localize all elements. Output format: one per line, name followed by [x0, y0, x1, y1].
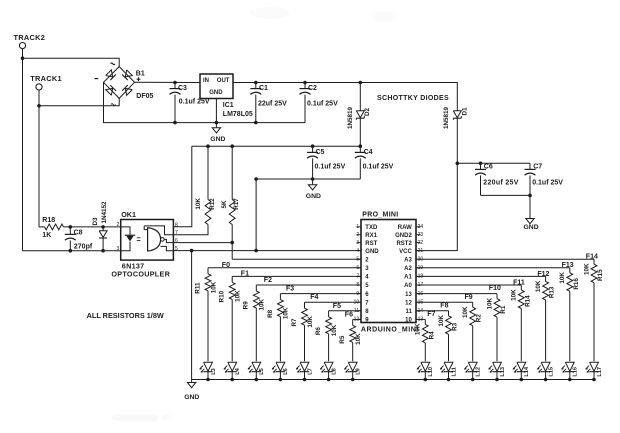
svg-text:LM78L05: LM78L05 — [223, 111, 253, 118]
junction LED L17 rail — [592, 378, 596, 382]
svg-text:0.1uf 25V: 0.1uf 25V — [532, 180, 563, 187]
svg-text:F0: F0 — [222, 262, 230, 269]
wire bottom LED-side rail — [23, 250, 121, 252]
svg-text:ALL RESISTORS 1/8W: ALL RESISTORS 1/8W — [87, 311, 164, 320]
wire AC to bridge bottom — [39, 98, 119, 105]
svg-text:SCHOTTKY DIODES: SCHOTTKY DIODES — [377, 95, 449, 102]
svg-text:R9: R9 — [243, 301, 250, 310]
resistor R12 10K — [173, 146, 216, 235]
resistor R9 10K — [243, 285, 266, 361]
svg-text:22uf 25V: 22uf 25V — [258, 100, 287, 107]
svg-text:RAW: RAW — [398, 225, 412, 231]
wire OUT rail — [233, 83, 457, 109]
wire function row F13 — [416, 267, 570, 269]
svg-text:10K: 10K — [195, 198, 202, 210]
node F4 — [310, 294, 318, 301]
junction TRACK1 AC wire — [37, 104, 41, 108]
capacitor C5 — [307, 146, 345, 179]
svg-text:10K: 10K — [559, 272, 566, 284]
junction C8 bottom — [69, 249, 73, 253]
junction LED L3 rail — [206, 378, 210, 382]
svg-text:GND: GND — [524, 224, 539, 231]
svg-text:RST: RST — [365, 241, 377, 247]
svg-text:12: 12 — [405, 300, 412, 306]
svg-text:D1: D1 — [461, 107, 468, 116]
resistor R10 10K — [219, 276, 242, 361]
svg-text:R11: R11 — [194, 282, 201, 294]
svg-text:F2: F2 — [264, 277, 272, 284]
junction LED L10 rail — [424, 378, 428, 382]
svg-text:TXD: TXD — [365, 225, 378, 231]
junction R12 top — [206, 144, 210, 148]
svg-text:0.1uf 25V: 0.1uf 25V — [179, 99, 210, 106]
svg-text:A3: A3 — [404, 257, 412, 263]
label SCHOTTKY DIODES — [377, 95, 449, 102]
wire function row F7 — [416, 318, 425, 320]
wire function row F9 — [416, 301, 473, 303]
node F8 — [440, 302, 448, 309]
capacitor C4 — [355, 146, 394, 179]
svg-text:F3: F3 — [286, 286, 294, 293]
node F6 — [345, 311, 353, 318]
svg-text:2: 2 — [117, 222, 120, 228]
wire function row F4 — [305, 301, 362, 303]
capacitor C3 — [170, 83, 210, 123]
junction C2 top — [303, 81, 307, 85]
svg-text:10K: 10K — [486, 297, 493, 309]
svg-text:GND: GND — [209, 90, 223, 96]
svg-text:1N5819: 1N5819 — [443, 106, 450, 129]
svg-text:10K: 10K — [511, 289, 518, 301]
svg-text:D3: D3 — [92, 217, 99, 226]
node F2 — [264, 277, 272, 284]
svg-text:R16: R16 — [573, 278, 580, 290]
wire C6 C7 bottom — [481, 194, 531, 196]
node F3 — [286, 286, 294, 293]
svg-text:8: 8 — [175, 222, 178, 228]
svg-text:F5: F5 — [333, 303, 341, 310]
svg-text:R4: R4 — [428, 331, 435, 340]
LED L17 — [585, 362, 603, 379]
svg-text:10K: 10K — [583, 263, 590, 275]
node TRACK1 — [30, 74, 62, 90]
svg-text:A2: A2 — [404, 266, 412, 272]
svg-text:L17: L17 — [597, 367, 603, 377]
junction C5 top — [311, 144, 315, 148]
junction C3 bottom — [173, 121, 177, 125]
wire function row F5 — [329, 310, 361, 312]
svg-text:F4: F4 — [310, 294, 318, 301]
node F0 — [222, 262, 230, 269]
svg-text:C2: C2 — [308, 85, 317, 92]
svg-text:F6: F6 — [345, 311, 353, 318]
svg-text:R8: R8 — [267, 309, 274, 318]
resistor R5 10K — [339, 319, 362, 361]
capacitor C6 — [475, 163, 519, 195]
svg-text:L13: L13 — [500, 367, 506, 377]
svg-text:RX1: RX1 — [365, 233, 377, 239]
wire function row F0 — [208, 267, 361, 269]
wire function row F11 — [416, 284, 521, 286]
svg-text:F9: F9 — [465, 294, 473, 301]
junction C1 bottom — [254, 121, 258, 125]
svg-text:R13: R13 — [549, 286, 556, 298]
LED L6 — [272, 362, 290, 379]
svg-text:C4: C4 — [364, 149, 373, 156]
svg-text:C7: C7 — [533, 164, 542, 171]
diode D3 1N4152 — [92, 201, 108, 251]
decorative watermark (not labelled further) — [112, 7, 396, 421]
svg-text:10K: 10K — [331, 324, 338, 336]
svg-text:C5: C5 — [316, 149, 325, 156]
junction LED L9 rail — [351, 378, 355, 382]
svg-text:F13: F13 — [562, 262, 574, 269]
schottky diode D1 1N5819 — [443, 106, 469, 163]
bridge rectifier B1 DF05 — [95, 63, 154, 105]
svg-text:F7: F7 — [427, 311, 435, 318]
svg-text:10K: 10K — [235, 290, 242, 302]
svg-text:L14: L14 — [524, 366, 530, 377]
svg-text:270pf: 270pf — [74, 244, 93, 251]
wire top AC rail to bridge — [23, 58, 120, 66]
resistor R4 10K — [415, 319, 436, 361]
resistor R16 10K — [559, 268, 580, 362]
wire opto pin8 to 5V rail — [173, 146, 191, 227]
junction D1 bottom — [456, 162, 460, 166]
svg-text:F8: F8 — [440, 302, 448, 309]
svg-text:R1: R1 — [500, 305, 507, 314]
svg-text:L8: L8 — [331, 368, 337, 375]
svg-text:R7: R7 — [291, 318, 298, 327]
junction TRACK2 top rail — [21, 56, 25, 60]
LED L15 — [537, 362, 555, 379]
node F13 — [562, 262, 574, 269]
junction D3 bottom — [101, 249, 105, 253]
svg-text:R15: R15 — [597, 269, 604, 281]
svg-text:R5: R5 — [339, 335, 346, 344]
svg-text:L12: L12 — [476, 367, 482, 377]
svg-text:10K: 10K — [438, 315, 445, 327]
LED L13 — [488, 362, 506, 379]
node F12 — [537, 271, 549, 278]
ground symbol bottom — [184, 380, 199, 402]
svg-text:C3: C3 — [178, 85, 187, 92]
svg-text:0.1uf 25V: 0.1uf 25V — [315, 164, 346, 171]
junction LED L11 rail — [447, 378, 451, 382]
wire TRACK1 vertical — [38, 90, 40, 227]
svg-text:L15: L15 — [548, 367, 554, 377]
node TRACK2 — [14, 33, 46, 49]
svg-text:TRACK1: TRACK1 — [30, 74, 62, 83]
junction riser GND row — [254, 249, 258, 253]
svg-text:R14: R14 — [524, 295, 531, 307]
LED L4 — [224, 362, 242, 379]
op-amp U1 optocoupler OK1 6N137 — [111, 210, 178, 279]
svg-text:L10: L10 — [428, 367, 434, 377]
junction GND drop — [190, 249, 194, 253]
svg-text:6: 6 — [175, 238, 178, 244]
wire TRACK2 vertical — [22, 49, 24, 251]
wire function row F1 — [232, 275, 361, 277]
capacitor C2 — [300, 83, 339, 123]
junction R17 pin6 — [230, 241, 234, 245]
junction LED L14 rail — [520, 378, 524, 382]
svg-text:10: 10 — [405, 318, 412, 324]
resistor R11 10K — [194, 268, 217, 362]
svg-text:OK1: OK1 — [121, 210, 136, 219]
junction LED L13 rail — [495, 378, 499, 382]
svg-text:B1: B1 — [136, 70, 145, 77]
svg-text:10K: 10K — [462, 306, 469, 318]
svg-text:5K: 5K — [221, 200, 228, 209]
junction LED L4 rail — [230, 378, 234, 382]
svg-text:10K: 10K — [535, 280, 542, 292]
node F9 — [465, 294, 473, 301]
junction C6 top — [479, 162, 483, 166]
svg-text:R18: R18 — [42, 217, 55, 224]
svg-text:RST2: RST2 — [396, 241, 412, 247]
svg-text:R2: R2 — [476, 314, 483, 323]
node F10 — [489, 285, 501, 292]
LED L3 — [199, 362, 217, 379]
ground symbol under IC1 — [210, 123, 225, 143]
svg-text:10K: 10K — [283, 307, 290, 319]
svg-text:DF05: DF05 — [136, 93, 153, 100]
node F5 — [333, 303, 341, 310]
wire D1 to C6 C7 — [457, 162, 530, 164]
wire riser to GND row — [255, 179, 257, 251]
junction D2 bottom C4 — [359, 144, 363, 148]
svg-text:13: 13 — [405, 292, 412, 298]
svg-text:0.1uf 25V: 0.1uf 25V — [307, 100, 338, 107]
svg-text:R17: R17 — [233, 198, 240, 210]
svg-text:R10: R10 — [219, 290, 226, 302]
svg-text:C6: C6 — [484, 164, 493, 171]
ground symbol under C5 — [306, 179, 321, 200]
wire IC1 GND pin — [215, 99, 217, 123]
svg-text:TRACK2: TRACK2 — [14, 33, 46, 42]
LED L11 — [440, 362, 458, 379]
svg-text:VCC: VCC — [399, 249, 412, 255]
svg-text:A0: A0 — [404, 283, 412, 289]
junction C5 bottom — [311, 177, 315, 181]
schottky diode D2 1N5819 — [347, 83, 371, 147]
wire bottom cathode rail — [192, 379, 594, 381]
junction LED L8 rail — [327, 378, 331, 382]
resistor R8 10K — [267, 294, 290, 362]
wire C4 C5 ground rail — [256, 178, 360, 180]
svg-text:ARDUINO_MINI: ARDUINO_MINI — [361, 326, 419, 333]
svg-text:10K: 10K — [259, 298, 266, 310]
resistor R2 10K — [462, 302, 483, 361]
svg-text:10K: 10K — [210, 281, 217, 293]
svg-text:L9: L9 — [356, 368, 362, 375]
svg-text:L4: L4 — [235, 367, 241, 374]
wire function row F6 — [353, 318, 361, 320]
resistor R17 5K — [221, 146, 240, 259]
wire function row F14 — [416, 258, 594, 260]
svg-text:GND: GND — [210, 136, 225, 143]
junction LED L7 rail — [303, 378, 307, 382]
LED L8 — [320, 362, 338, 379]
junction rail riser — [254, 177, 258, 181]
svg-text:220uf 25V: 220uf 25V — [483, 180, 518, 187]
svg-text:IC1: IC1 — [223, 102, 234, 109]
svg-text:11: 11 — [405, 309, 412, 315]
junction C3 top — [173, 81, 177, 85]
junction C8 top — [69, 225, 73, 229]
svg-text:GND: GND — [365, 249, 379, 255]
wire function row F2 — [256, 284, 361, 286]
svg-text:F10: F10 — [489, 285, 501, 292]
LED L9 — [344, 362, 362, 379]
svg-text:R6: R6 — [315, 327, 322, 336]
resistor R15 10K — [583, 259, 604, 361]
wire D3 to opto pin2 — [103, 226, 121, 228]
junction C7 bottom — [528, 194, 532, 198]
wire opto pin6 — [173, 242, 232, 244]
resistor R7 10K — [291, 302, 314, 361]
label ALL RESISTORS 1/8W — [87, 311, 164, 320]
junction IC1 gnd rail — [215, 121, 219, 125]
wire function row F3 — [280, 293, 361, 295]
svg-text:10K: 10K — [307, 316, 314, 328]
junction D3 top — [101, 225, 105, 229]
svg-text:5: 5 — [175, 246, 178, 252]
resistor R18 1K — [39, 217, 70, 239]
wire GND drop to bottom rail — [191, 251, 193, 380]
resistor R13 10K — [535, 276, 556, 361]
wire function row F12 — [416, 275, 546, 277]
svg-text:OPTOCOUPLER: OPTOCOUPLER — [111, 270, 170, 279]
wire bridge minus to ground rail — [104, 82, 306, 122]
svg-text:L5: L5 — [259, 368, 265, 375]
ground symbol under C7 — [524, 195, 539, 231]
node F7 — [427, 311, 435, 318]
LED L12 — [464, 362, 482, 379]
junction LED L6 rail — [279, 378, 283, 382]
node F11 — [513, 279, 525, 286]
resistor R6 10K — [315, 311, 338, 362]
junction R17 top — [230, 144, 234, 148]
node F14 — [586, 254, 598, 261]
node F1 — [241, 271, 249, 278]
svg-text:OUT: OUT — [217, 78, 230, 84]
junction LED L15 rail — [544, 378, 548, 382]
junction LED L16 rail — [568, 378, 572, 382]
svg-text:0.1uf 25V: 0.1uf 25V — [363, 164, 394, 171]
resistor R14 10K — [511, 285, 532, 361]
wire function row F10 — [416, 293, 497, 295]
wire R18 to D3 — [70, 226, 103, 228]
svg-text:1N5819: 1N5819 — [347, 106, 354, 129]
resistor R1 10K — [486, 294, 507, 362]
svg-text:GND2: GND2 — [395, 233, 412, 239]
svg-text:7: 7 — [175, 230, 178, 236]
svg-text:1K: 1K — [42, 232, 51, 239]
svg-text:A1: A1 — [404, 275, 412, 281]
svg-text:F12: F12 — [537, 271, 549, 278]
wire 5V rail — [192, 145, 360, 147]
junction C1 top — [254, 81, 258, 85]
LED L7 — [296, 362, 314, 379]
wire function row F8 — [416, 310, 449, 312]
resistor R3 10K — [438, 311, 459, 362]
junction LED L12 rail — [471, 378, 475, 382]
svg-text:10K: 10K — [355, 333, 362, 345]
svg-text:C8: C8 — [74, 229, 83, 236]
wire GND row — [173, 250, 361, 252]
capacitor C1 — [250, 83, 287, 123]
svg-text:IN: IN — [203, 78, 209, 84]
wire row2 to PRO_MINI — [232, 258, 361, 260]
junction D2 top — [359, 81, 363, 85]
capacitor C8 — [65, 227, 93, 251]
svg-text:F1: F1 — [241, 271, 249, 278]
svg-text:D2: D2 — [364, 107, 371, 116]
IC PRO_MINI ARDUINO_MINI — [354, 211, 424, 333]
svg-text:GND: GND — [306, 193, 321, 200]
regulator IC1 LM78L05 — [200, 74, 253, 118]
junction LED L5 rail — [254, 378, 258, 382]
LED L5 — [248, 362, 266, 379]
svg-text:C1: C1 — [259, 85, 268, 92]
svg-text:F11: F11 — [513, 279, 525, 286]
svg-text:R12: R12 — [209, 198, 216, 210]
wire D1 to VCC pin — [416, 163, 457, 250]
wire bridge plus to IC1 IN — [135, 81, 201, 83]
svg-text:L16: L16 — [573, 367, 579, 377]
svg-text:1N4152: 1N4152 — [101, 201, 108, 224]
svg-text:R3: R3 — [452, 322, 459, 331]
svg-text:L11: L11 — [451, 367, 457, 376]
svg-text:GND: GND — [184, 394, 199, 401]
LED L10 — [417, 362, 435, 379]
svg-text:L6: L6 — [283, 368, 289, 375]
svg-text:F14: F14 — [586, 254, 598, 261]
svg-text:PRO_MINI: PRO_MINI — [362, 211, 398, 218]
svg-text:L7: L7 — [307, 368, 313, 375]
capacitor C7 — [525, 163, 564, 195]
LED L16 — [561, 362, 579, 379]
svg-text:L3: L3 — [211, 368, 217, 375]
LED L14 — [513, 362, 531, 379]
svg-text:3: 3 — [117, 246, 120, 252]
